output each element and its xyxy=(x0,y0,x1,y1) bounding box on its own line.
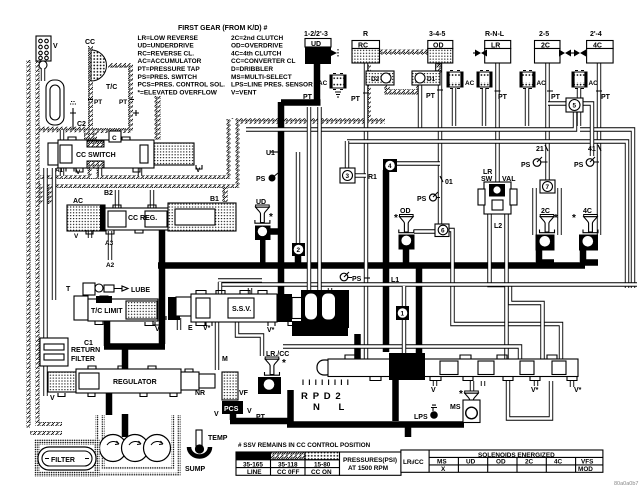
svg-text:PS: PS xyxy=(256,176,266,183)
svg-text:M: M xyxy=(222,356,228,363)
svg-text:V*: V* xyxy=(531,387,539,394)
svg-text:PRESSURES(PSI): PRESSURES(PSI) xyxy=(343,457,397,464)
wire CC switch bottom ports xyxy=(62,168,140,176)
svg-text:21: 21 xyxy=(536,146,544,153)
svg-text:V: V xyxy=(76,169,81,176)
svg-text:PT: PT xyxy=(601,94,611,101)
wire ball3 riser xyxy=(345,141,349,169)
wire A3 line xyxy=(108,244,112,260)
svg-text:A3: A3 xyxy=(105,240,114,247)
svg-text:2'-4: 2'-4 xyxy=(590,31,602,38)
svg-text:PS: PS xyxy=(352,276,362,283)
wire cooler band xyxy=(31,127,88,133)
svg-text:CC REG.: CC REG. xyxy=(128,215,157,222)
svg-text:PT: PT xyxy=(426,93,436,100)
wire CC switch inlet elbow xyxy=(84,128,97,143)
svg-text:CC SWITCH: CC SWITCH xyxy=(76,152,116,159)
svg-text:15-80: 15-80 xyxy=(314,461,331,468)
note SSV xyxy=(238,442,371,449)
accumulator AC 2C xyxy=(520,71,546,89)
svg-text:E: E xyxy=(188,325,193,332)
svg-text:C: C xyxy=(112,135,117,142)
wire ball4 to 01 xyxy=(397,161,440,165)
svg-text:LRₗ/CC: LRₗ/CC xyxy=(403,459,424,466)
wire L1 drop xyxy=(402,286,406,353)
svg-text:35-165: 35-165 xyxy=(243,461,263,468)
svg-text:PT: PT xyxy=(351,96,361,103)
svg-text:LPS=LINE PRES. SENSOR: LPS=LINE PRES. SENSOR xyxy=(231,82,313,89)
svg-text:C2: C2 xyxy=(77,121,86,128)
LEFTSIDE xyxy=(36,36,236,269)
svg-text:7: 7 xyxy=(546,184,550,191)
svg-text:35-118: 35-118 xyxy=(278,461,298,468)
wire CC switch top ports xyxy=(62,130,118,142)
svg-text:AC: AC xyxy=(465,80,475,87)
svg-text:PT: PT xyxy=(551,94,561,101)
solenoid MS xyxy=(450,389,480,423)
svg-text:R: R xyxy=(363,31,368,38)
solenoid OD xyxy=(394,208,415,250)
svg-text:VF: VF xyxy=(239,390,249,397)
svg-text:LR: LR xyxy=(483,169,492,176)
PCS solenoid xyxy=(214,401,266,421)
svg-text:2C=2nd CLUTCH: 2C=2nd CLUTCH xyxy=(231,35,283,42)
svg-text:V=VENT: V=VENT xyxy=(231,89,256,96)
svg-text:PT: PT xyxy=(498,94,508,101)
svg-text:X: X xyxy=(441,466,446,473)
vent stack xyxy=(36,36,58,69)
svg-text:1-2/2'-3: 1-2/2'-3 xyxy=(304,31,328,38)
svg-text:AC: AC xyxy=(537,80,547,87)
wire D2-D1 hatched connector xyxy=(387,85,419,92)
svg-text:V*: V* xyxy=(267,327,275,334)
svg-text:LUBE: LUBE xyxy=(131,287,150,294)
svg-text:3: 3 xyxy=(346,173,350,180)
svg-text:T/C LIMIT: T/C LIMIT xyxy=(91,308,123,315)
label A1 line small xyxy=(0,0,1,1)
svg-text:MS: MS xyxy=(450,404,461,411)
wire UD sol stub thick xyxy=(262,228,281,235)
svg-text:R1: R1 xyxy=(368,174,377,181)
svg-text:L2: L2 xyxy=(494,223,502,230)
svg-text:PS=PRES. SWITCH: PS=PRES. SWITCH xyxy=(138,74,198,81)
wire LRSW leg B xyxy=(504,214,508,361)
svg-text:CC 0FF: CC 0FF xyxy=(277,469,299,476)
svg-text:FILTER: FILTER xyxy=(71,356,95,363)
svg-text:C1: C1 xyxy=(84,340,93,347)
valve CC REG xyxy=(74,203,236,247)
svg-text:N L: N L xyxy=(313,402,352,413)
svg-text:*: * xyxy=(572,213,576,224)
pressure switch PS 41 xyxy=(574,157,595,169)
label A2 xyxy=(106,262,115,269)
svg-text:6: 6 xyxy=(441,228,445,235)
svg-text:VFS: VFS xyxy=(581,459,594,466)
wire AC drops xyxy=(454,88,579,126)
label 21 xyxy=(536,145,548,153)
svg-text:FILTER: FILTER xyxy=(51,457,75,464)
svg-text:FIRST GEAR (FROM K/D) #: FIRST GEAR (FROM K/D) # xyxy=(178,25,268,32)
VF screen xyxy=(222,372,249,400)
check ball 2 xyxy=(292,243,305,256)
svg-text:V*: V* xyxy=(574,387,582,394)
svg-text:V: V xyxy=(50,395,55,402)
svg-text:B1: B1 xyxy=(210,196,219,203)
check ball 3 xyxy=(340,168,377,183)
sensor LPS xyxy=(414,405,438,421)
svg-text:01: 01 xyxy=(445,179,453,186)
svg-text:V: V xyxy=(247,408,252,415)
svg-text:OD: OD xyxy=(496,459,506,466)
TABLES xyxy=(236,442,638,487)
wire OD column xyxy=(438,63,442,226)
accumulator AC OD xyxy=(447,71,475,89)
label U1 xyxy=(266,150,278,157)
accumulator AC UD xyxy=(318,74,346,98)
svg-text:41: 41 xyxy=(588,146,596,153)
legend title xyxy=(178,25,268,32)
manual valve xyxy=(303,353,578,385)
wire ball6 to OD sol xyxy=(414,229,436,233)
svg-text:AC: AC xyxy=(589,80,599,87)
svg-text:MOD: MOD xyxy=(578,466,593,473)
wire left V line xyxy=(43,168,47,396)
svg-text:R-N-L: R-N-L xyxy=(485,31,505,38)
svg-text:OD: OD xyxy=(400,208,411,215)
label L1 xyxy=(364,277,399,284)
wire MS sol stub xyxy=(470,381,474,395)
BOTTOM xyxy=(37,283,582,474)
check ball 1 xyxy=(396,306,409,320)
svg-text:80a0a0b7: 80a0a0b7 xyxy=(614,481,638,487)
svg-text:PS: PS xyxy=(574,162,584,169)
clutch RC xyxy=(352,31,380,63)
wire RC dribbler hatch riser xyxy=(365,64,371,119)
wire manual valve vent stubs xyxy=(435,381,572,387)
wire ball5 rail xyxy=(246,111,575,130)
torque converter box xyxy=(85,39,158,143)
svg-text:PT: PT xyxy=(303,94,313,101)
svg-text:V: V xyxy=(196,167,201,174)
wire B2 hatched channel xyxy=(40,119,233,204)
svg-text:V: V xyxy=(74,233,79,240)
accumulator AC ccreg xyxy=(67,198,105,231)
svg-text:S.S.V.: S.S.V. xyxy=(232,306,251,313)
wire B1 riser hatched xyxy=(222,186,228,202)
clutch 2C xyxy=(535,31,573,63)
valve REGULATOR xyxy=(48,366,215,402)
svg-text:RETURN: RETURN xyxy=(71,347,100,354)
wire second rail xyxy=(347,142,627,289)
svg-text:RC=REVERSE CL.: RC=REVERSE CL. xyxy=(138,50,195,57)
wire SSV short rail xyxy=(218,278,262,282)
svg-text:LR=LOW REVERSE: LR=LOW REVERSE xyxy=(138,35,199,42)
check ball 4 xyxy=(383,159,397,172)
wire 4C column xyxy=(597,63,601,235)
wire RC column xyxy=(364,63,368,359)
pressure legend table xyxy=(236,452,340,476)
label 41 xyxy=(588,145,601,153)
svg-text:D=DRIBBLER: D=DRIBBLER xyxy=(231,66,273,73)
wire CC switch outlet elbow xyxy=(88,166,101,178)
oil filter xyxy=(37,442,97,474)
wire stack neck xyxy=(41,68,45,81)
svg-text:4C: 4C xyxy=(583,208,592,215)
check ball 6 xyxy=(435,224,449,237)
thermometer TEMP xyxy=(195,430,228,453)
clutch OD xyxy=(428,31,453,63)
lube circuit xyxy=(66,283,150,295)
wire U1 branch xyxy=(296,152,300,245)
wire main line rail thick xyxy=(158,224,585,266)
valve SSV xyxy=(145,290,349,334)
wire ball2 drain thick xyxy=(295,255,302,265)
check ball 7 xyxy=(540,180,555,193)
svg-text:*: * xyxy=(282,358,286,369)
svg-text:4C=4th CLUTCH: 4C=4th CLUTCH xyxy=(231,50,282,57)
wire 4C sol drop thick xyxy=(580,250,598,263)
svg-text:*: * xyxy=(459,389,463,400)
hatch stub OD xyxy=(436,64,442,72)
svg-text:A2: A2 xyxy=(106,262,115,269)
legend column 2 xyxy=(231,35,313,97)
svg-text:PS: PS xyxy=(417,196,427,203)
svg-text:B2: B2 xyxy=(104,190,113,197)
svg-text:V: V xyxy=(53,43,58,50)
TOPBOXES xyxy=(303,31,613,156)
dribbler D1 xyxy=(412,71,440,85)
wire E stub xyxy=(177,318,181,330)
svg-text:# SSV REMAINS IN CC CONTROL PO: # SSV REMAINS IN CC CONTROL POSITION xyxy=(238,442,371,449)
legend column 1 xyxy=(138,35,226,97)
svg-text:PCS: PCS xyxy=(224,406,239,413)
return filter xyxy=(40,338,100,366)
pressure switch PS 21 xyxy=(521,157,542,169)
wire left suction channel xyxy=(30,60,62,429)
clutch 4C xyxy=(572,31,613,63)
svg-text:*: * xyxy=(554,213,558,224)
valve LR switch xyxy=(478,169,517,230)
svg-text:V*: V* xyxy=(203,325,211,332)
svg-text:LINE: LINE xyxy=(247,469,262,476)
svg-text:PT: PT xyxy=(256,414,266,421)
svg-text:SUMP: SUMP xyxy=(185,466,206,473)
wire converter hatched band main xyxy=(231,118,385,124)
label M xyxy=(222,356,228,363)
wire TC limit branch thick xyxy=(104,265,165,372)
pressure switch PS 01 xyxy=(417,192,438,203)
svg-text:NR: NR xyxy=(195,390,205,397)
svg-text:PT: PT xyxy=(119,99,127,106)
svg-text:2-5: 2-5 xyxy=(539,31,549,38)
svg-text:TEMP: TEMP xyxy=(208,435,228,442)
wire SSV long rail xyxy=(222,282,637,286)
wire PCS outlet thick xyxy=(230,412,289,421)
pump assembly xyxy=(100,435,171,462)
svg-text:D1: D1 xyxy=(427,76,436,83)
wire ball6 to manual valve xyxy=(448,230,561,361)
label 01 xyxy=(440,176,453,186)
manual valve letters xyxy=(301,391,352,413)
svg-text:D2: D2 xyxy=(371,76,380,83)
wire left second line xyxy=(52,168,56,300)
wire LRSW leg A xyxy=(490,214,543,361)
svg-text:AC: AC xyxy=(318,80,328,87)
svg-text:PT: PT xyxy=(94,99,102,106)
cooler xyxy=(46,80,64,125)
svg-text:A1: A1 xyxy=(55,167,64,174)
wire 2C loop left xyxy=(532,188,536,235)
svg-text:2C: 2C xyxy=(525,459,534,466)
svg-text:OD=OVERDRIVE: OD=OVERDRIVE xyxy=(231,43,283,50)
svg-text:V: V xyxy=(431,387,436,394)
wire OD sol drop thick xyxy=(403,249,410,263)
wire RC-OD hatched connector xyxy=(379,49,428,55)
wire pump to regulator thick xyxy=(109,392,125,437)
svg-text:T/C: T/C xyxy=(106,84,117,91)
wire manual valve feed thick xyxy=(416,264,423,355)
svg-text:2C: 2C xyxy=(541,208,550,215)
solenoids table xyxy=(401,450,603,473)
wire 2C loop right xyxy=(557,188,561,235)
check ball 5 xyxy=(566,98,583,112)
solenoid LR/CC xyxy=(258,351,289,394)
accumulator AC LR xyxy=(477,71,492,89)
wire far right rail xyxy=(580,130,633,289)
svg-text:CC=CONVERTER CL: CC=CONVERTER CL xyxy=(231,58,295,65)
pressure switch PS L1 xyxy=(340,272,361,283)
wire LRCC PT line xyxy=(283,347,520,360)
svg-text:MS=MULTI-SELECT: MS=MULTI-SELECT xyxy=(231,74,292,81)
manual valve vents xyxy=(431,387,582,394)
svg-text:2: 2 xyxy=(297,247,301,254)
svg-text:REGULATOR: REGULATOR xyxy=(113,379,157,386)
svg-text:V: V xyxy=(214,411,219,418)
solenoid 4C xyxy=(572,208,598,251)
WIRES-LAYER xyxy=(30,52,637,437)
svg-text:4C: 4C xyxy=(554,459,563,466)
MIDDLE xyxy=(145,145,601,394)
wire UD feed thick xyxy=(281,62,321,296)
valve TC LIMIT xyxy=(74,296,160,347)
svg-text:T: T xyxy=(66,286,71,293)
watermark xyxy=(614,481,638,487)
wire M line xyxy=(215,321,219,370)
wire ball4 line thick xyxy=(383,170,390,352)
svg-text:1: 1 xyxy=(401,311,405,318)
wire ball5 links xyxy=(548,104,592,157)
svg-text:PS: PS xyxy=(521,162,531,169)
svg-text:U1: U1 xyxy=(266,150,275,157)
wire valve to LPS rail thick xyxy=(392,378,399,421)
sump xyxy=(185,444,210,473)
C2 valve xyxy=(70,102,86,130)
svg-text:PCS=PRES. CONTROL SOL.: PCS=PRES. CONTROL SOL. xyxy=(138,82,226,89)
wire LRCC feed xyxy=(237,321,262,356)
svg-text:V: V xyxy=(155,326,160,333)
accumulator AC 4C xyxy=(572,71,598,89)
wire CC reg top ports xyxy=(117,190,152,208)
wire SSV to manual valve bar thick xyxy=(292,321,358,360)
svg-text:CC ON: CC ON xyxy=(311,469,332,476)
svg-text:UD=UNDERDRIVE: UD=UNDERDRIVE xyxy=(138,43,195,50)
wire LR column xyxy=(495,63,499,182)
svg-text:PT=PRESSURE TAP: PT=PRESSURE TAP xyxy=(138,66,201,73)
wire LPS rail thick xyxy=(287,390,464,437)
svg-text:3-4-5: 3-4-5 xyxy=(429,31,445,38)
svg-text:4: 4 xyxy=(388,163,392,170)
svg-text:LPS: LPS xyxy=(414,414,428,421)
label B2 xyxy=(104,190,113,197)
svg-text:CC: CC xyxy=(85,39,95,46)
wire 2C sol drop thick xyxy=(536,250,554,263)
svg-text:UD: UD xyxy=(311,41,321,48)
valve CC SWITCH xyxy=(48,131,202,176)
svg-text:5: 5 xyxy=(573,103,577,110)
pressures box xyxy=(340,452,402,475)
wire MS loop xyxy=(483,381,551,419)
pressure switch PS U1 xyxy=(256,173,278,183)
dribbler D2 xyxy=(366,71,394,85)
wire SSV risers xyxy=(220,107,330,296)
clutch LR xyxy=(473,31,511,63)
solenoid 2C xyxy=(536,208,559,251)
svg-text:MS: MS xyxy=(437,459,447,466)
svg-text:L1: L1 xyxy=(391,277,399,284)
svg-text:UD: UD xyxy=(466,459,476,466)
wire PS stubs right xyxy=(346,162,599,278)
clutch UD xyxy=(304,31,338,64)
wire D1 drop xyxy=(418,85,422,130)
wire R1 stub xyxy=(355,173,366,177)
solenoid UD xyxy=(255,199,273,265)
svg-text:AC=ACCUMULATOR: AC=ACCUMULATOR xyxy=(138,58,202,65)
svg-text:*=ELEVATED OVERFLOW: *=ELEVATED OVERFLOW xyxy=(138,89,218,96)
svg-text:*: * xyxy=(394,213,398,224)
svg-text:AT 1500 RPM: AT 1500 RPM xyxy=(348,465,388,472)
wire CC reg V port xyxy=(90,231,110,242)
PT labels top row xyxy=(303,90,611,103)
svg-text:AC: AC xyxy=(73,198,83,205)
svg-text:R P D 2: R P D 2 xyxy=(301,391,342,402)
label B1 xyxy=(210,196,219,203)
wire 2C column xyxy=(545,63,549,184)
pump suction channel xyxy=(100,415,176,471)
